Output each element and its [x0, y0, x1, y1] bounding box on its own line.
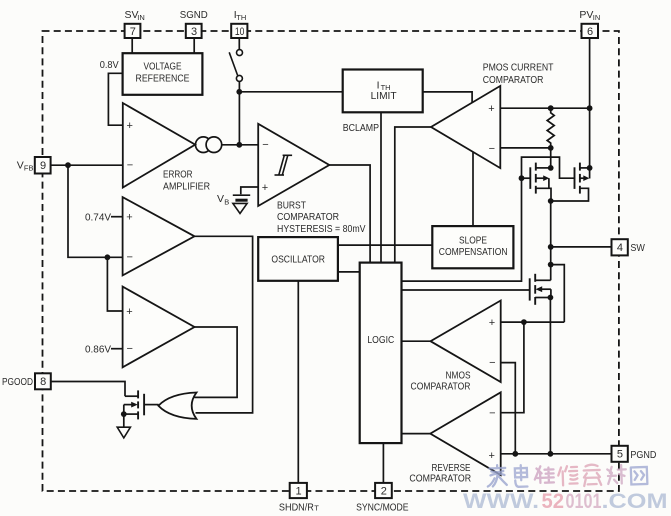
svg-text:−: −: [489, 407, 495, 419]
svg-text:0101: 0101: [566, 490, 602, 511]
svg-text:REFERENCE: REFERENCE: [136, 73, 190, 85]
current source gm output: [196, 137, 212, 153]
wire 0.86V comparator output to OR gate top input: [195, 327, 238, 397]
wire NMOS comparator output to logic: [402, 340, 431, 342]
svg-text:4: 4: [617, 242, 623, 254]
svg-text:0.8V: 0.8V: [100, 59, 119, 71]
svg-text:+: +: [262, 182, 268, 194]
pin 5 PGND: [612, 446, 628, 462]
wire SW sense to NMOS comparator + line: [551, 265, 565, 323]
svg-text:SLOPE: SLOPE: [459, 235, 487, 247]
node PGND rail junction A: [512, 451, 518, 457]
svg-text:HYSTERESIS = 80mV: HYSTERESIS = 80mV: [277, 223, 366, 235]
svg-text:VOLTAGE: VOLTAGE: [144, 60, 182, 72]
switch S1 on ITH pin: [238, 39, 240, 50]
svg-text:52: 52: [542, 490, 565, 511]
node NMOS source: [548, 295, 554, 301]
wire 0.74V lead: [111, 216, 123, 218]
block voltage reference: [123, 53, 203, 95]
svg-text:+: +: [489, 317, 495, 329]
svg-text:+: +: [489, 450, 495, 462]
wire resistor bottom to sense PMOS drain: [550, 148, 552, 168]
node PMOS drain join: [548, 198, 554, 204]
wire 0.86V lead: [111, 348, 123, 350]
pin 4 SW: [612, 239, 628, 255]
node Q2 source PVIN: [587, 165, 593, 171]
node PVIN rail junction: [587, 105, 593, 111]
node SW pin junction: [548, 244, 554, 250]
svg-text:PV: PV: [579, 9, 593, 21]
svg-text:−: −: [262, 139, 268, 151]
svg-text:+: +: [126, 212, 132, 224]
svg-text:PGOOD: PGOOD: [2, 376, 33, 388]
hysteresis symbol: [275, 174, 285, 176]
watermark chinese characters: [487, 465, 507, 487]
ground below Q4: [117, 427, 130, 438]
wire to reverse comparator - input: [501, 322, 524, 413]
svg-text:PGND: PGND: [630, 449, 656, 461]
pin 3 SGND: [186, 24, 202, 38]
svg-text:SYNC/MODE: SYNC/MODE: [356, 502, 409, 512]
wire ITH LIMIT bottom to logic: [380, 112, 382, 262]
svg-text:V: V: [217, 193, 224, 205]
wire 0.8V reference to error amp + input: [108, 73, 122, 125]
wire logic to pin2 SYNC/MODE: [382, 443, 384, 483]
pin 6 PVIN: [582, 24, 599, 38]
wire Q4 source to ground: [123, 414, 125, 427]
svg-text:+: +: [127, 120, 133, 132]
svg-text:SW: SW: [630, 242, 645, 254]
wire burst comparator + input to VB: [241, 187, 258, 194]
IC boundary dashed border: [43, 31, 619, 491]
wire oscillator to pin1 SHDN/RT: [297, 281, 299, 483]
node sense resistor bottom: [548, 145, 554, 151]
wire VFB pin9 to error amp - input: [51, 164, 123, 166]
node SW sense junction: [548, 262, 554, 268]
node PGND rail junction B: [548, 451, 554, 457]
svg-text:AMPLIFIER: AMPLIFIER: [163, 181, 210, 193]
pin 2 SYNC/MODE: [375, 483, 392, 498]
svg-text:9: 9: [40, 160, 46, 172]
svg-text:OSCILLATOR: OSCILLATOR: [271, 254, 325, 266]
wire oscillator to slope compensation: [338, 244, 432, 246]
svg-text:LOGIC: LOGIC: [367, 334, 394, 346]
node error amp output junction: [236, 142, 242, 148]
svg-text:SGND: SGND: [180, 9, 208, 21]
wire pin7 to voltage reference: [131, 38, 133, 54]
svg-text:3: 3: [191, 26, 197, 38]
wire NMOS source to PGND rail: [549, 298, 551, 454]
wire error amp output to burst comparator - input: [195, 144, 258, 146]
svg-text:IN: IN: [137, 13, 145, 22]
node Q4 source tie: [121, 411, 127, 417]
pin 8 PGOOD: [35, 373, 51, 389]
ground below VB: [233, 203, 247, 213]
comparator 0.86V power good low: [123, 287, 195, 368]
comparator NMOS current: [431, 301, 501, 383]
transistor Q2 main PMOS: [574, 167, 576, 189]
comparator reverse current: [430, 392, 500, 475]
pin 9 VFB: [35, 157, 51, 174]
wire VFB trunk to 0.86V comparator + input: [107, 257, 122, 311]
wire SW node to pin4: [551, 246, 612, 248]
svg-text:−: −: [127, 343, 133, 355]
svg-text:2: 2: [381, 485, 387, 497]
wire NMOS comparator - input to PGND rail: [501, 363, 516, 454]
svg-text:−: −: [127, 252, 133, 264]
svg-text:−: −: [489, 357, 495, 369]
svg-text:TH: TH: [236, 13, 246, 22]
wire PGND rail to pin5: [501, 453, 612, 455]
svg-text:COMPENSATION: COMPENSATION: [439, 246, 508, 258]
wire BCLAMP from PMOS comparator apex to logic: [395, 127, 431, 263]
svg-text:0.74V: 0.74V: [85, 212, 111, 224]
block logic: [360, 263, 402, 444]
wire NMOS comparator + input line: [501, 321, 565, 323]
svg-text:7: 7: [130, 26, 136, 38]
node PMOS gate tee: [519, 175, 525, 181]
wire sense PMOS gate lead: [522, 177, 531, 179]
wire logic to NMOS gate: [402, 289, 530, 291]
wire oscillator to logic: [338, 271, 360, 273]
transistor Q4 PGOOD NMOS: [143, 394, 145, 416]
node Q1 drain: [548, 165, 554, 171]
svg-text:COMPARATOR: COMPARATOR: [409, 473, 471, 485]
pin 7 SVIN: [125, 24, 141, 38]
svg-text:ERROR: ERROR: [163, 169, 193, 181]
wire ITH switch to ITH LIMIT input: [239, 91, 342, 93]
svg-text:IN: IN: [593, 13, 601, 22]
svg-text:5: 5: [617, 449, 623, 461]
svg-text:8: 8: [40, 376, 46, 388]
comparator 0.74V power good high: [123, 197, 195, 275]
svg-text:+: +: [126, 306, 132, 318]
resistor sense R: [547, 108, 554, 148]
svg-text:6: 6: [587, 26, 593, 38]
svg-text:V: V: [17, 160, 24, 172]
node reverse sense tee: [521, 319, 527, 325]
svg-text:−: −: [489, 143, 495, 155]
wire 0.74V comparator output to OR gate bottom input: [195, 236, 253, 413]
svg-text:B: B: [224, 197, 229, 206]
node VFB trunk tee: [105, 254, 111, 260]
svg-text:COMPARATOR: COMPARATOR: [483, 74, 544, 86]
transistor Q3 main NMOS: [529, 278, 531, 300]
block oscillator: [258, 237, 338, 281]
svg-text:BCLAMP: BCLAMP: [343, 122, 379, 134]
wire logic to PMOS gates: [402, 157, 575, 281]
block slope compensation: [432, 226, 513, 268]
svg-text:−: −: [127, 160, 133, 172]
node ITH limit tee: [236, 89, 242, 95]
wire pin3 to voltage reference: [193, 39, 195, 54]
svg-text:+: +: [488, 103, 494, 115]
wire PVIN pin6 down: [589, 38, 591, 108]
wire PMOS drains to SW node: [550, 201, 552, 280]
svg-text:BURST: BURST: [277, 199, 306, 211]
block ITH LIMIT: [343, 70, 423, 113]
comparator burst: [258, 124, 329, 206]
wire VFB trunk to 0.74V comparator - input: [68, 165, 123, 257]
node VFB junction: [65, 162, 71, 168]
wire slope compensation top to PMOS comparator: [472, 153, 474, 227]
wire burst comparator output to logic: [329, 165, 370, 263]
pin 1 SHDN/RT: [290, 483, 307, 498]
wire ITH switch down to error amp output node: [238, 82, 240, 145]
pin 10 ITH: [231, 24, 247, 38]
wire PMOS comparator - input to sense resistor bottom: [500, 147, 550, 149]
OR gate U5: [158, 393, 196, 419]
wire reverse comparator output to logic: [402, 433, 431, 435]
node sense resistor top: [548, 105, 554, 111]
comparator PMOS current: [431, 86, 500, 168]
transistor Q1 sense PMOS: [529, 167, 531, 189]
wire PGOOD pin8 to pulldown NMOS drain: [51, 382, 125, 397]
svg-text:SHDN/R: SHDN/R: [279, 502, 314, 512]
svg-text:10: 10: [235, 26, 245, 38]
svg-text:COMPARATOR: COMPARATOR: [277, 211, 339, 223]
svg-text:WWW.: WWW.: [463, 490, 539, 511]
svg-text:.COM: .COM: [602, 490, 668, 511]
svg-text:FB: FB: [24, 164, 34, 173]
svg-text:PMOS CURRENT: PMOS CURRENT: [483, 62, 554, 74]
wire ITH LIMIT output L to PMOS comparator edge: [423, 92, 472, 103]
wire PVIN rail to main PMOS: [589, 108, 591, 178]
wire PMOS comparator + input rail: [500, 107, 589, 109]
op-amp error amplifier: [123, 103, 195, 188]
svg-text:0.86V: 0.86V: [85, 343, 111, 355]
svg-text:T: T: [314, 504, 319, 512]
svg-text:COMPARATOR: COMPARATOR: [411, 380, 471, 392]
svg-text:1: 1: [296, 485, 302, 497]
battery VB: [233, 194, 250, 196]
svg-text:LIMIT: LIMIT: [371, 90, 398, 102]
